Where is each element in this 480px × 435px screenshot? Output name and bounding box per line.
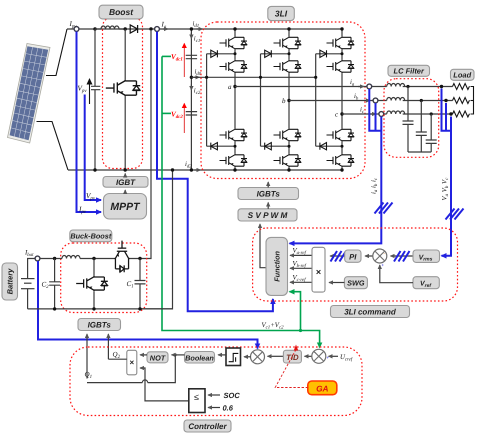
block TID — [283, 350, 301, 363]
clamp diode D1a — [207, 50, 235, 77]
transistor S3c — [327, 128, 355, 141]
clamp diode D2c — [316, 77, 342, 149]
wire SWG to multiply — [329, 282, 344, 284]
svg-text:Boolean: Boolean — [185, 353, 214, 362]
three-phase slashes on iabc wire — [375, 203, 393, 214]
resistor Rb — [453, 98, 470, 104]
junctions leg3 — [314, 27, 344, 171]
label ic with arrow — [360, 107, 376, 116]
svg-text:Ipv: Ipv — [78, 206, 87, 216]
label ia with arrow — [350, 79, 364, 88]
clamp diode D2b — [261, 77, 290, 149]
block PI — [345, 250, 361, 262]
junction — [93, 168, 96, 171]
node Ia — [155, 21, 168, 32]
wire TID to sum — [268, 355, 284, 357]
sum junction (battery current loop) — [251, 350, 265, 364]
inductor L boost — [95, 26, 125, 29]
svg-text:IGBTs: IGBTs — [88, 321, 112, 330]
label Va-ref with wire into Function — [290, 248, 312, 257]
svg-text:Function: Function — [273, 250, 282, 281]
label box LC Filter — [388, 65, 430, 76]
block Vrms — [413, 250, 440, 263]
junction — [93, 27, 96, 30]
svg-text:id1: id1 — [193, 21, 200, 30]
svg-text:LC Filter: LC Filter — [393, 67, 424, 76]
wire Vrms to sum with slashes — [391, 251, 414, 262]
svg-text:a: a — [228, 83, 232, 91]
block MPPT — [104, 194, 147, 220]
block SWG — [344, 277, 367, 289]
label box Load — [451, 69, 475, 80]
transistor S2a — [220, 60, 248, 73]
junction — [92, 257, 95, 260]
wire Ia measurement (blue) to Function bottom — [157, 32, 273, 312]
svg-text:IGBT: IGBT — [116, 178, 136, 187]
node ia tap — [367, 84, 372, 89]
transistor Q buck (rotated) — [114, 241, 129, 273]
transistor S4b — [274, 154, 302, 167]
transistor S3b — [274, 128, 302, 141]
transistor S1c — [327, 36, 355, 49]
capacitor Cdc2 — [186, 112, 197, 115]
svg-text:Boost: Boost — [109, 7, 134, 17]
wire Vref to sum — [380, 265, 413, 283]
transistor S3a — [220, 128, 248, 141]
wire multiply output to Q2 gate — [108, 358, 126, 360]
wire PV minus terminal to bottom rail — [37, 122, 69, 171]
wire Vdc sense vertical (green) down to Vc1+Vc2 rail — [162, 56, 320, 347]
junction — [190, 168, 193, 171]
three-phase slashes on Vabc wire — [446, 209, 464, 220]
label ic1 with arrow — [191, 33, 200, 44]
leg1 vertical wire — [234, 29, 236, 170]
inductor Lb — [387, 98, 405, 101]
svg-text:b: b — [282, 97, 286, 105]
transistor Q boost switch — [76, 259, 108, 309]
block Boolean — [185, 352, 215, 364]
label ib with arrow — [354, 93, 370, 102]
label box 3LI command — [331, 306, 410, 318]
svg-text:PI: PI — [349, 253, 357, 262]
wire sum to hysteresis — [244, 356, 251, 358]
capacitor Cdc1 — [186, 55, 197, 58]
3LI red dashed enclosure — [201, 22, 365, 179]
svg-text:≤: ≤ — [194, 392, 199, 402]
svg-text:×: × — [129, 358, 134, 367]
wire Vdc2 sense stub (green) — [162, 112, 171, 114]
wire buck-boost top rail — [40, 258, 140, 260]
sum junction (voltage loop) — [373, 249, 387, 268]
label 0.6 with arrow — [208, 404, 234, 413]
label Vpv with arrow at PV capacitor — [78, 79, 90, 104]
label box Battery — [2, 263, 18, 300]
node ib tap — [373, 98, 378, 103]
svg-text:TID: TID — [286, 353, 299, 362]
svg-text:Vc1+Vc2: Vc1+Vc2 — [262, 322, 285, 331]
resistor Ra — [453, 84, 470, 90]
block comparator SOC — [189, 389, 205, 413]
block NOT — [147, 352, 168, 363]
svg-text:Load: Load — [453, 71, 471, 80]
node a — [228, 83, 237, 91]
arrow Q1 gate wire — [86, 334, 88, 379]
LC filter red dashed enclosure — [384, 79, 439, 158]
block Function — [266, 237, 288, 295]
wire DC+ down to buck-boost — [140, 31, 151, 259]
svg-text:Buck-Boost: Buck-Boost — [70, 232, 112, 241]
wire sum2 to TID — [305, 355, 312, 357]
block Vref — [413, 277, 439, 289]
junction — [171, 168, 174, 171]
transistor S4a — [220, 154, 248, 167]
svg-text:IGBTs: IGBTs — [257, 190, 281, 199]
junctions leg2 — [259, 27, 291, 171]
label box Controller — [184, 420, 231, 432]
boost red dashed enclosure — [103, 17, 143, 169]
svg-text:3LI command: 3LI command — [344, 308, 397, 317]
red callout GA tunes TID — [275, 345, 308, 388]
label box IGBTs (3LI gates) — [238, 188, 299, 200]
inductor Lc — [387, 111, 405, 114]
label Ucref with arrow — [329, 354, 353, 363]
wire capacitor star point — [408, 151, 431, 153]
wire buck-boost return vertical — [140, 170, 173, 309]
junction — [149, 27, 152, 30]
transistor S4c — [327, 154, 355, 167]
block multiply (controller) — [127, 350, 137, 375]
block multiply (3LI command) — [312, 247, 325, 292]
svg-text:Controller: Controller — [188, 422, 227, 431]
wire iabc measurement (blue) to Function — [290, 89, 382, 243]
transistor S2c — [327, 60, 355, 73]
node Vc tap — [449, 112, 452, 115]
label ic2 with arrow — [191, 85, 200, 97]
svg-text:SOC: SOC — [224, 391, 241, 400]
leg2 vertical wire — [288, 29, 290, 170]
arrow MPPT to IGBT box — [124, 190, 126, 194]
wire sum to PI — [365, 255, 373, 257]
junction — [124, 168, 127, 171]
node Ipv — [69, 20, 79, 31]
wire DC link vertical — [190, 29, 192, 170]
node b — [282, 97, 291, 105]
svg-text:Ibat: Ibat — [24, 250, 34, 259]
capacitor PV input (branch x=95) — [91, 29, 100, 170]
wire Function output to SVPWM — [260, 224, 266, 268]
inductor L buck-boost — [62, 256, 80, 259]
clamp diode D2a — [207, 77, 235, 149]
label box Buck-Boost — [70, 230, 112, 242]
svg-text:S V P W M: S V P W M — [248, 211, 288, 220]
svg-text:ia ib ic: ia ib ic — [371, 177, 380, 194]
wire Boolean to NOT — [172, 354, 185, 356]
wire Ibat measurement (blue) to controller sum — [38, 261, 258, 349]
label Vc-ref with wire into Function — [290, 275, 312, 284]
svg-text:Vpv: Vpv — [78, 85, 88, 95]
node Ibat — [24, 250, 40, 261]
leg3 vertical wire — [341, 29, 343, 170]
wire Q1 from Boolean branch with hop — [87, 353, 177, 382]
arrow SVPWM to IGBTs — [267, 203, 269, 209]
wire Ipv measurement (blue) to MPPT — [77, 32, 102, 213]
svg-text:SWG: SWG — [347, 279, 365, 288]
clamp diode D1b — [261, 50, 290, 77]
label box IGBT — [103, 177, 148, 188]
transistor S1a — [220, 36, 248, 49]
svg-text:0.6: 0.6 — [223, 404, 234, 413]
capacitor Cb — [416, 99, 427, 152]
buck-boost red dashed enclosure — [61, 243, 147, 313]
svg-text:Va-ref: Va-ref — [293, 248, 307, 257]
arrow IGBT box to boost — [124, 174, 126, 177]
transistor S2b — [274, 60, 302, 73]
wire Vdc1 sense stub (green) — [162, 55, 171, 57]
wire green branch to Function — [290, 292, 301, 331]
svg-text:Vdc1: Vdc1 — [171, 53, 183, 63]
svg-text:+: + — [382, 263, 385, 268]
svg-text:3LI: 3LI — [275, 9, 288, 19]
inductor La — [387, 84, 405, 87]
junction id0 — [190, 76, 193, 79]
svg-text:C2: C2 — [42, 281, 50, 291]
node Vb tap — [444, 99, 447, 102]
label id1 with arrow on top rail — [193, 21, 203, 30]
wire bottom DC rail — [68, 169, 342, 171]
svg-text:ic1: ic1 — [194, 36, 200, 45]
controller red dashed enclosure — [70, 347, 362, 416]
svg-text:Q1: Q1 — [85, 371, 93, 381]
svg-text:NOT: NOT — [150, 353, 166, 362]
wire buck-boost bottom rail — [28, 308, 173, 310]
svg-text:×: × — [316, 267, 321, 277]
block hysteresis pulse — [226, 348, 241, 366]
PV solar panel — [8, 44, 51, 144]
wire neutral rail to clamp rails — [191, 76, 315, 78]
svg-text:Ucref: Ucref — [340, 354, 353, 363]
capacitor C1 — [127, 257, 146, 309]
capacitor C2 — [42, 257, 61, 309]
clamp diode D1c — [316, 50, 342, 77]
label id2 with arrow on bottom rail — [185, 161, 201, 170]
block GA — [308, 381, 337, 395]
wire Vpv measurement (blue) to MPPT — [85, 95, 101, 201]
sum junction (DC voltage balance) — [312, 349, 330, 363]
3LI command red dashed enclosure — [253, 228, 458, 301]
label box SVPWM — [238, 209, 297, 221]
label SOC with arrow — [208, 391, 240, 400]
node Va tap — [440, 85, 443, 88]
junctions bottom rail — [53, 307, 142, 310]
wire Vabc measurement (blue) to Vrms — [442, 89, 452, 256]
label box IGBTs (buck-boost gates) — [78, 319, 121, 331]
resistor Rc — [453, 111, 470, 117]
svg-text:Q2: Q2 — [113, 351, 121, 361]
svg-text:ic2: ic2 — [194, 88, 201, 97]
junctions leg1 — [205, 27, 237, 171]
transistor boost IGBT — [106, 29, 140, 170]
svg-text:C1: C1 — [127, 280, 134, 290]
label Vb-ref with wire into Function — [290, 261, 312, 270]
junction — [190, 27, 193, 30]
svg-text:GA: GA — [316, 383, 328, 393]
label Vdc1 (red) with arrow — [171, 44, 184, 78]
wire phase a — [235, 86, 453, 88]
battery symbol — [21, 259, 35, 309]
wire phase c — [342, 113, 453, 115]
wire comparator to multiply lower input — [140, 368, 189, 401]
arrow IGBTs to 3LI — [267, 182, 269, 188]
junction — [124, 27, 127, 30]
wire hysteresis to Boolean — [218, 354, 226, 356]
capacitor Ca — [403, 85, 414, 152]
wire load common — [471, 87, 474, 115]
svg-text:Vdc2: Vdc2 — [171, 111, 183, 121]
node c — [335, 111, 344, 119]
diode D boost — [130, 25, 137, 33]
wire phase b — [289, 100, 453, 102]
svg-text:c: c — [335, 111, 339, 119]
wire top DC rail — [67, 28, 342, 30]
label box 3LI — [268, 6, 295, 20]
label box Boost — [99, 5, 143, 19]
svg-text:Ipv: Ipv — [69, 20, 78, 30]
wire PI to multiply with slashes — [330, 251, 346, 262]
node ic tap — [379, 112, 384, 117]
svg-text:Battery: Battery — [6, 268, 15, 295]
arrow Q2 gate wire — [107, 334, 109, 359]
junction green branch — [299, 329, 302, 332]
wire PV plus terminal to top rail — [46, 29, 67, 76]
capacitor Cc — [426, 112, 437, 152]
svg-text:MPPT: MPPT — [110, 201, 141, 213]
svg-text:Va Vb Vc: Va Vb Vc — [442, 177, 451, 201]
label Vdc2 (red) with arrow — [171, 104, 184, 134]
label id0 with arrow — [193, 69, 201, 78]
transistor S1b — [274, 36, 302, 49]
wire NOT to multiply — [140, 354, 147, 356]
